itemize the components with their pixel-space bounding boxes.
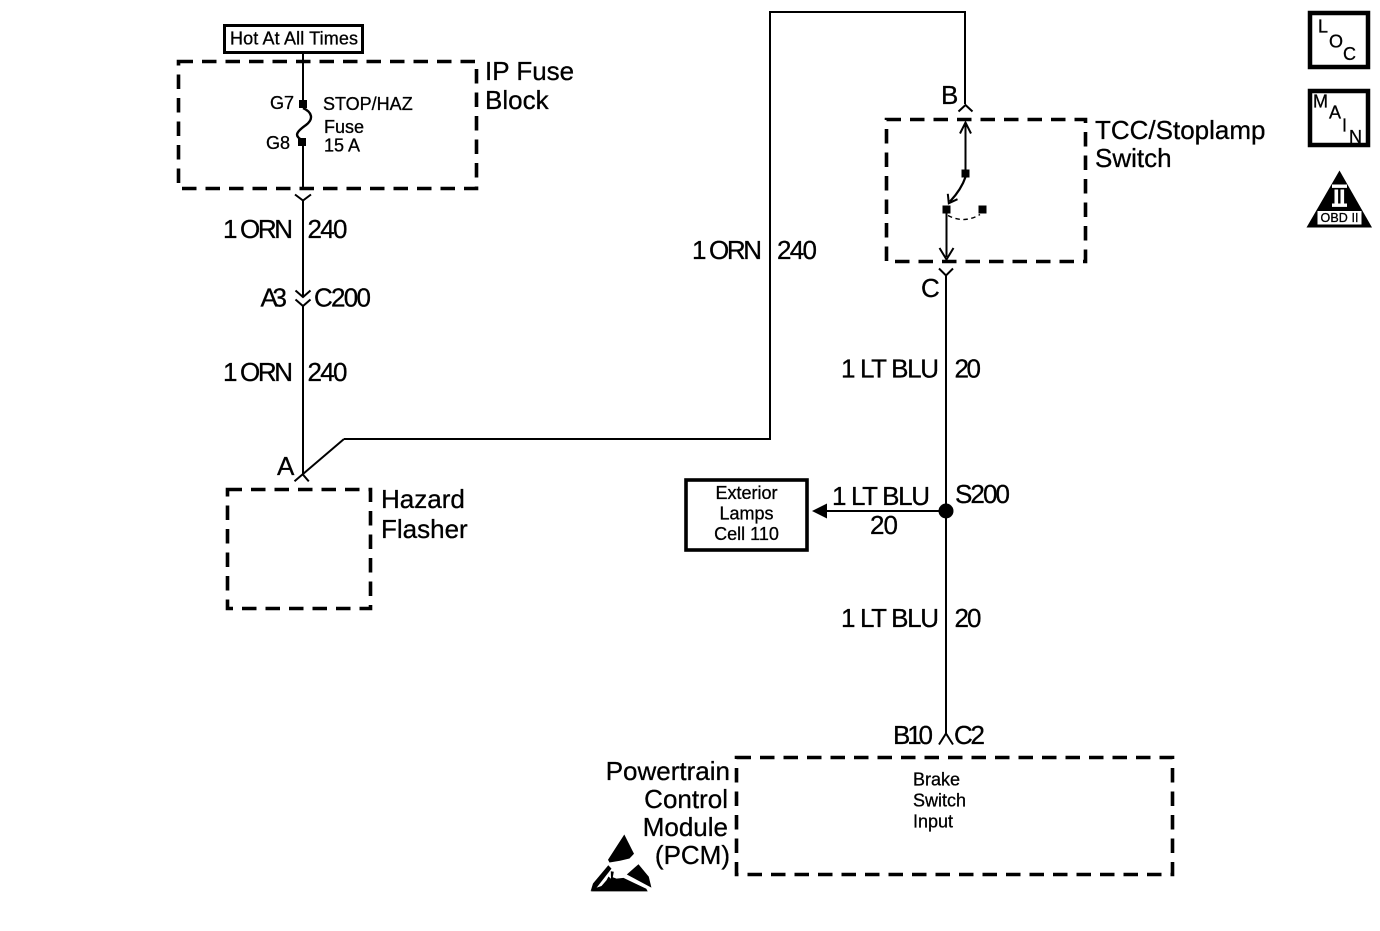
svg-text:Cell 110: Cell 110: [714, 524, 779, 544]
wire from Hot At All Times down to fuse terminal G7: [302, 53, 304, 101]
PCM connector B10 C2 chevron: [939, 734, 953, 745]
IP Fuse Block dashed box: [179, 62, 477, 189]
svg-text:Block: Block: [485, 85, 550, 115]
svg-text:240: 240: [308, 357, 348, 387]
IP Fuse Block label: [485, 56, 574, 115]
node A connector chevron: [303, 474, 309, 481]
svg-text:Brake: Brake: [913, 770, 960, 790]
Powertrain Control Module dashed box: [737, 758, 1173, 875]
MAIN icon box: [1310, 91, 1368, 147]
svg-text:Fuse: Fuse: [324, 117, 364, 137]
svg-text:1 LT BLU: 1 LT BLU: [841, 354, 939, 384]
branch wire diagonal from node A up-right: [295, 439, 345, 481]
splice S200 junction dot: [939, 504, 954, 519]
svg-text:1 LT BLU: 1 LT BLU: [832, 481, 930, 511]
wire segment C200 down to node A: [302, 306, 304, 474]
switch contact (lower left): [943, 206, 951, 214]
svg-text:TCC/Stoplamp: TCC/Stoplamp: [1095, 115, 1266, 145]
svg-text:I: I: [1342, 116, 1347, 136]
svg-text:240: 240: [777, 235, 817, 265]
svg-text:1 ORN: 1 ORN: [223, 214, 293, 244]
wire down to switch terminal B: [964, 11, 966, 104]
wire label 1 ORN 240 (third): [692, 235, 817, 265]
svg-text:20: 20: [955, 603, 982, 633]
ESD static-sensitive symbol: [591, 835, 652, 892]
svg-text:1 ORN: 1 ORN: [692, 235, 762, 265]
svg-text:Input: Input: [913, 812, 953, 832]
svg-text:B: B: [941, 80, 958, 110]
fuse STOP/HAZ S-curve element: [297, 108, 311, 140]
OBD II icon triangle: [1307, 171, 1373, 228]
fuse value label STOP/HAZ Fuse 15 A: [323, 94, 413, 156]
svg-text:1 LT BLU: 1 LT BLU: [841, 603, 939, 633]
TCC/Stoplamp Switch dashed box: [887, 120, 1086, 262]
svg-text:OBD II: OBD II: [1321, 211, 1359, 225]
wire from C down to PCM (through S200): [945, 276, 947, 734]
wire label 1 ORN 240 (upper): [223, 214, 348, 244]
svg-text:1 ORN: 1 ORN: [223, 357, 293, 387]
TCC/Stoplamp Switch label: [1095, 115, 1266, 173]
wire label 1 LT BLU 20 (lower): [841, 603, 982, 633]
Powertrain Control Module (PCM) label: [606, 756, 730, 870]
svg-text:C200: C200: [314, 283, 371, 313]
svg-text:Module: Module: [643, 812, 728, 842]
switch movable arm with arrowhead: [948, 177, 966, 203]
svg-text:Switch: Switch: [1095, 143, 1172, 173]
svg-text:Flasher: Flasher: [381, 514, 468, 544]
Brake Switch Input label: [913, 770, 966, 832]
svg-text:STOP/HAZ: STOP/HAZ: [323, 94, 413, 114]
svg-text:20: 20: [955, 354, 982, 384]
svg-text:C2: C2: [954, 720, 985, 750]
Exterior Lamps cell box: [686, 480, 807, 550]
wire from G8 down to fuse block edge: [302, 146, 304, 190]
terminal B connector chevron: [959, 105, 973, 112]
svg-text:240: 240: [308, 214, 348, 244]
svg-text:15 A: 15 A: [324, 136, 360, 156]
svg-text:20: 20: [870, 510, 898, 540]
branch wire horizontal to the right: [344, 438, 771, 440]
wire segment from fuse block to connector C200: [302, 201, 304, 298]
svg-text:IP Fuse: IP Fuse: [485, 56, 574, 86]
wire label 1 LT BLU 20 (upper): [841, 354, 981, 384]
svg-text:S200: S200: [955, 479, 1010, 509]
fuse terminal G7 square: [299, 100, 307, 108]
switch contact (right, alternate position): [979, 206, 987, 214]
svg-text:A: A: [1329, 103, 1341, 123]
in-line connector A3 C200: [261, 283, 372, 313]
svg-text:Exterior: Exterior: [715, 483, 777, 503]
connector chevron at fuse block exit: [295, 195, 311, 201]
svg-text:Switch: Switch: [913, 791, 966, 811]
svg-text:L: L: [1318, 17, 1328, 37]
svg-text:A3: A3: [261, 283, 288, 313]
branch wire vertical up: [769, 11, 771, 440]
svg-text:C: C: [1343, 44, 1356, 64]
svg-text:N: N: [1349, 127, 1362, 147]
svg-text:Control: Control: [644, 784, 728, 814]
svg-text:C: C: [921, 273, 940, 303]
dashed travel arc between contacts: [948, 215, 980, 220]
svg-text:G7: G7: [270, 93, 294, 113]
fuse terminal G8 square: [298, 138, 306, 146]
svg-text:Lamps: Lamps: [719, 504, 773, 524]
switch fixed contact (upper): [962, 170, 970, 178]
wire label 1 ORN 240 (second): [223, 357, 348, 387]
terminal C connector chevron: [939, 269, 953, 276]
switch arrow down to terminal C: [940, 213, 954, 260]
svg-text:B10: B10: [893, 720, 933, 750]
svg-text:A: A: [277, 451, 295, 481]
LOC icon box: [1310, 13, 1368, 67]
branch wire to Exterior Lamps with arrowhead: [812, 504, 946, 519]
svg-text:Powertrain: Powertrain: [606, 756, 730, 786]
Hazard Flasher label: [381, 484, 468, 544]
svg-text:M: M: [1313, 92, 1328, 112]
branch wire horizontal along top: [769, 11, 966, 13]
Hazard Flasher dashed box: [228, 490, 371, 609]
svg-text:(PCM): (PCM): [655, 840, 730, 870]
svg-text:O: O: [1329, 32, 1343, 52]
branch wire label 1 LT BLU / 20: [832, 481, 930, 540]
svg-text:Hot At All Times: Hot At All Times: [230, 29, 358, 49]
svg-text:Hazard: Hazard: [381, 484, 465, 514]
svg-text:G8: G8: [266, 133, 290, 153]
switch arrow up to terminal B: [960, 123, 971, 172]
power feed box Hot At All Times: [225, 26, 363, 53]
